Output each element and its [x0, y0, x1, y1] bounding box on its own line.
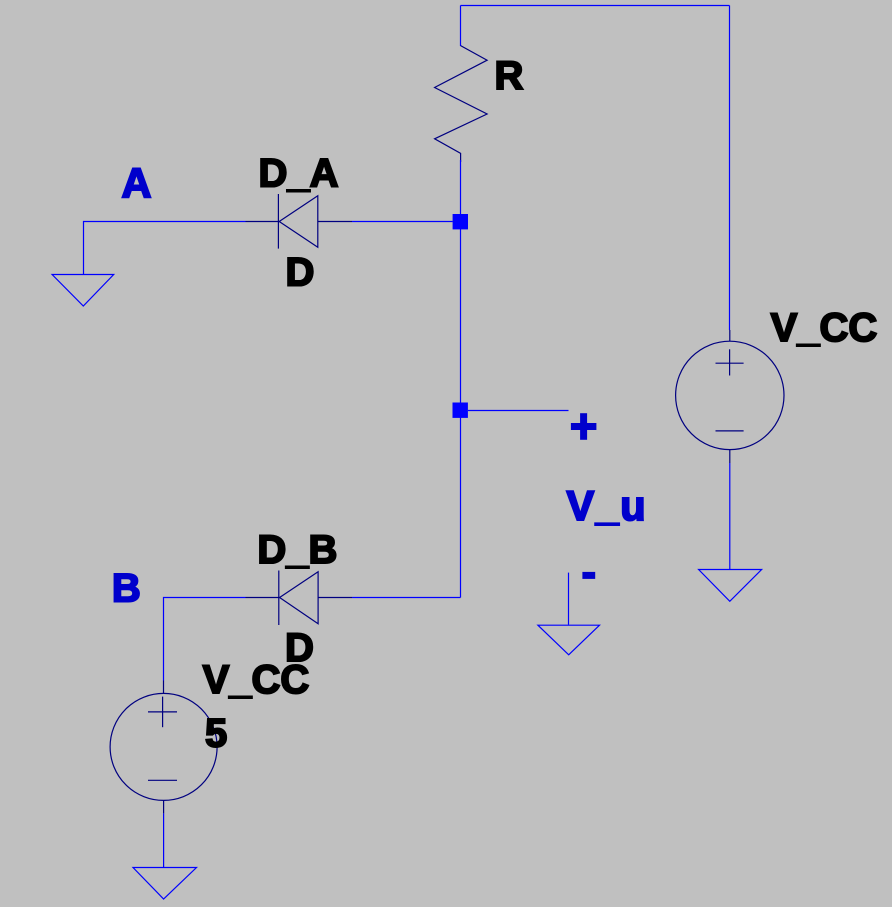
- wire A net: [84, 222, 246, 275]
- svg-text:D_B: D_B: [257, 528, 337, 572]
- resistor R: [435, 46, 488, 162]
- svg-text:D_A: D_A: [259, 152, 339, 196]
- ground (V_u minus): [538, 625, 600, 655]
- svg-text:V_u: V_u: [567, 482, 648, 529]
- svg-text:A: A: [122, 160, 152, 207]
- label - (V_u minus): [582, 572, 595, 579]
- voltage source V_CC5: [110, 681, 217, 814]
- svg-text:5: 5: [205, 712, 227, 756]
- diode D_A: [246, 194, 353, 249]
- ground (V_CC5): [133, 868, 197, 900]
- wire node 2 to + terminal: [468, 410, 569, 412]
- wire top rail: [461, 5, 730, 7]
- node junction 1: [453, 214, 468, 229]
- wire B net: [164, 598, 246, 681]
- svg-text:V_CC: V_CC: [203, 658, 310, 702]
- ground (V_CC): [699, 570, 762, 602]
- wire V_CC5 to ground: [163, 813, 165, 867]
- voltage source V_CC: [676, 330, 784, 463]
- wire V_CC to ground: [729, 463, 731, 569]
- wire V_u minus to ground: [568, 573, 570, 625]
- label + (V_u plus): [571, 413, 597, 440]
- wire right rail down to V_CC: [729, 6, 731, 331]
- wire resistor top stub: [460, 6, 462, 47]
- svg-text:V_CC: V_CC: [771, 306, 878, 350]
- wire D_A to node: [352, 221, 453, 223]
- diode D_B: [246, 571, 353, 626]
- wire center vertical: [460, 160, 462, 598]
- svg-text:B: B: [112, 566, 141, 610]
- node junction 2: [453, 403, 468, 418]
- wire D_B to center vertical: [352, 597, 461, 599]
- svg-text:R: R: [495, 54, 524, 98]
- svg-text:D: D: [286, 251, 315, 295]
- ground (net A): [52, 275, 114, 307]
